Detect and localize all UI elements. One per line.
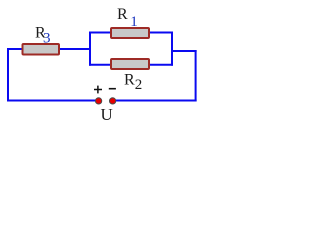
wire right vertical of outer loop [195,50,197,101]
svg-text:3: 3 [43,31,51,47]
wire left vertical of outer loop [7,48,9,101]
plus sign [94,86,102,94]
wire R1 right lead [148,32,173,34]
minus sign [109,88,116,90]
wire step horizontal to right edge [172,50,197,52]
svg-text:U: U [101,105,113,124]
wire R2 right lead [148,64,173,66]
svg-text:R: R [117,6,128,23]
wire R3 right to parallel block [58,48,91,50]
wire R2 left lead [89,64,112,66]
battery terminal left node [95,98,101,104]
wire bottom left segment [7,100,99,102]
svg-text:2: 2 [135,77,143,93]
resistor R3 [23,44,60,55]
battery terminal right node [109,98,115,104]
svg-text:R: R [124,72,135,89]
resistor R2 [111,59,149,69]
wire R1 left lead [89,32,112,34]
resistor R1 [111,28,149,38]
svg-text:1: 1 [130,14,138,30]
wire parallel-block right vertical [171,32,173,66]
wire top-left horizontal to R3 [7,48,23,50]
wire parallel-block left vertical [89,32,91,66]
wire bottom right segment [113,100,197,102]
